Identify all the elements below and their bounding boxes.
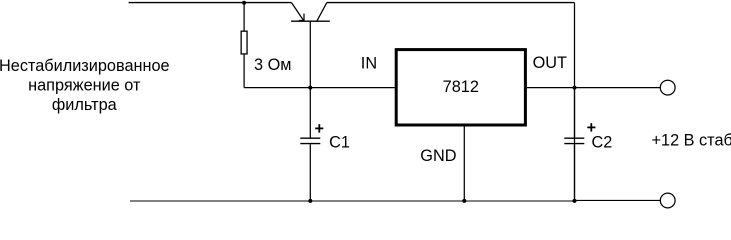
svg-text:IN: IN: [361, 54, 377, 72]
svg-text:GND: GND: [420, 147, 456, 165]
svg-text:напряжение от: напряжение от: [28, 76, 141, 94]
svg-text:+12 В стаб: +12 В стаб: [652, 132, 731, 150]
svg-text:OUT: OUT: [533, 54, 567, 72]
svg-text:C1: C1: [329, 134, 350, 152]
svg-text:C2: C2: [592, 134, 613, 152]
svg-text:7812: 7812: [443, 78, 479, 96]
svg-text:фильтра: фильтра: [52, 96, 118, 114]
svg-text:3 Ом: 3 Ом: [254, 56, 291, 74]
svg-text:Нестабилизированное: Нестабилизированное: [0, 57, 170, 75]
